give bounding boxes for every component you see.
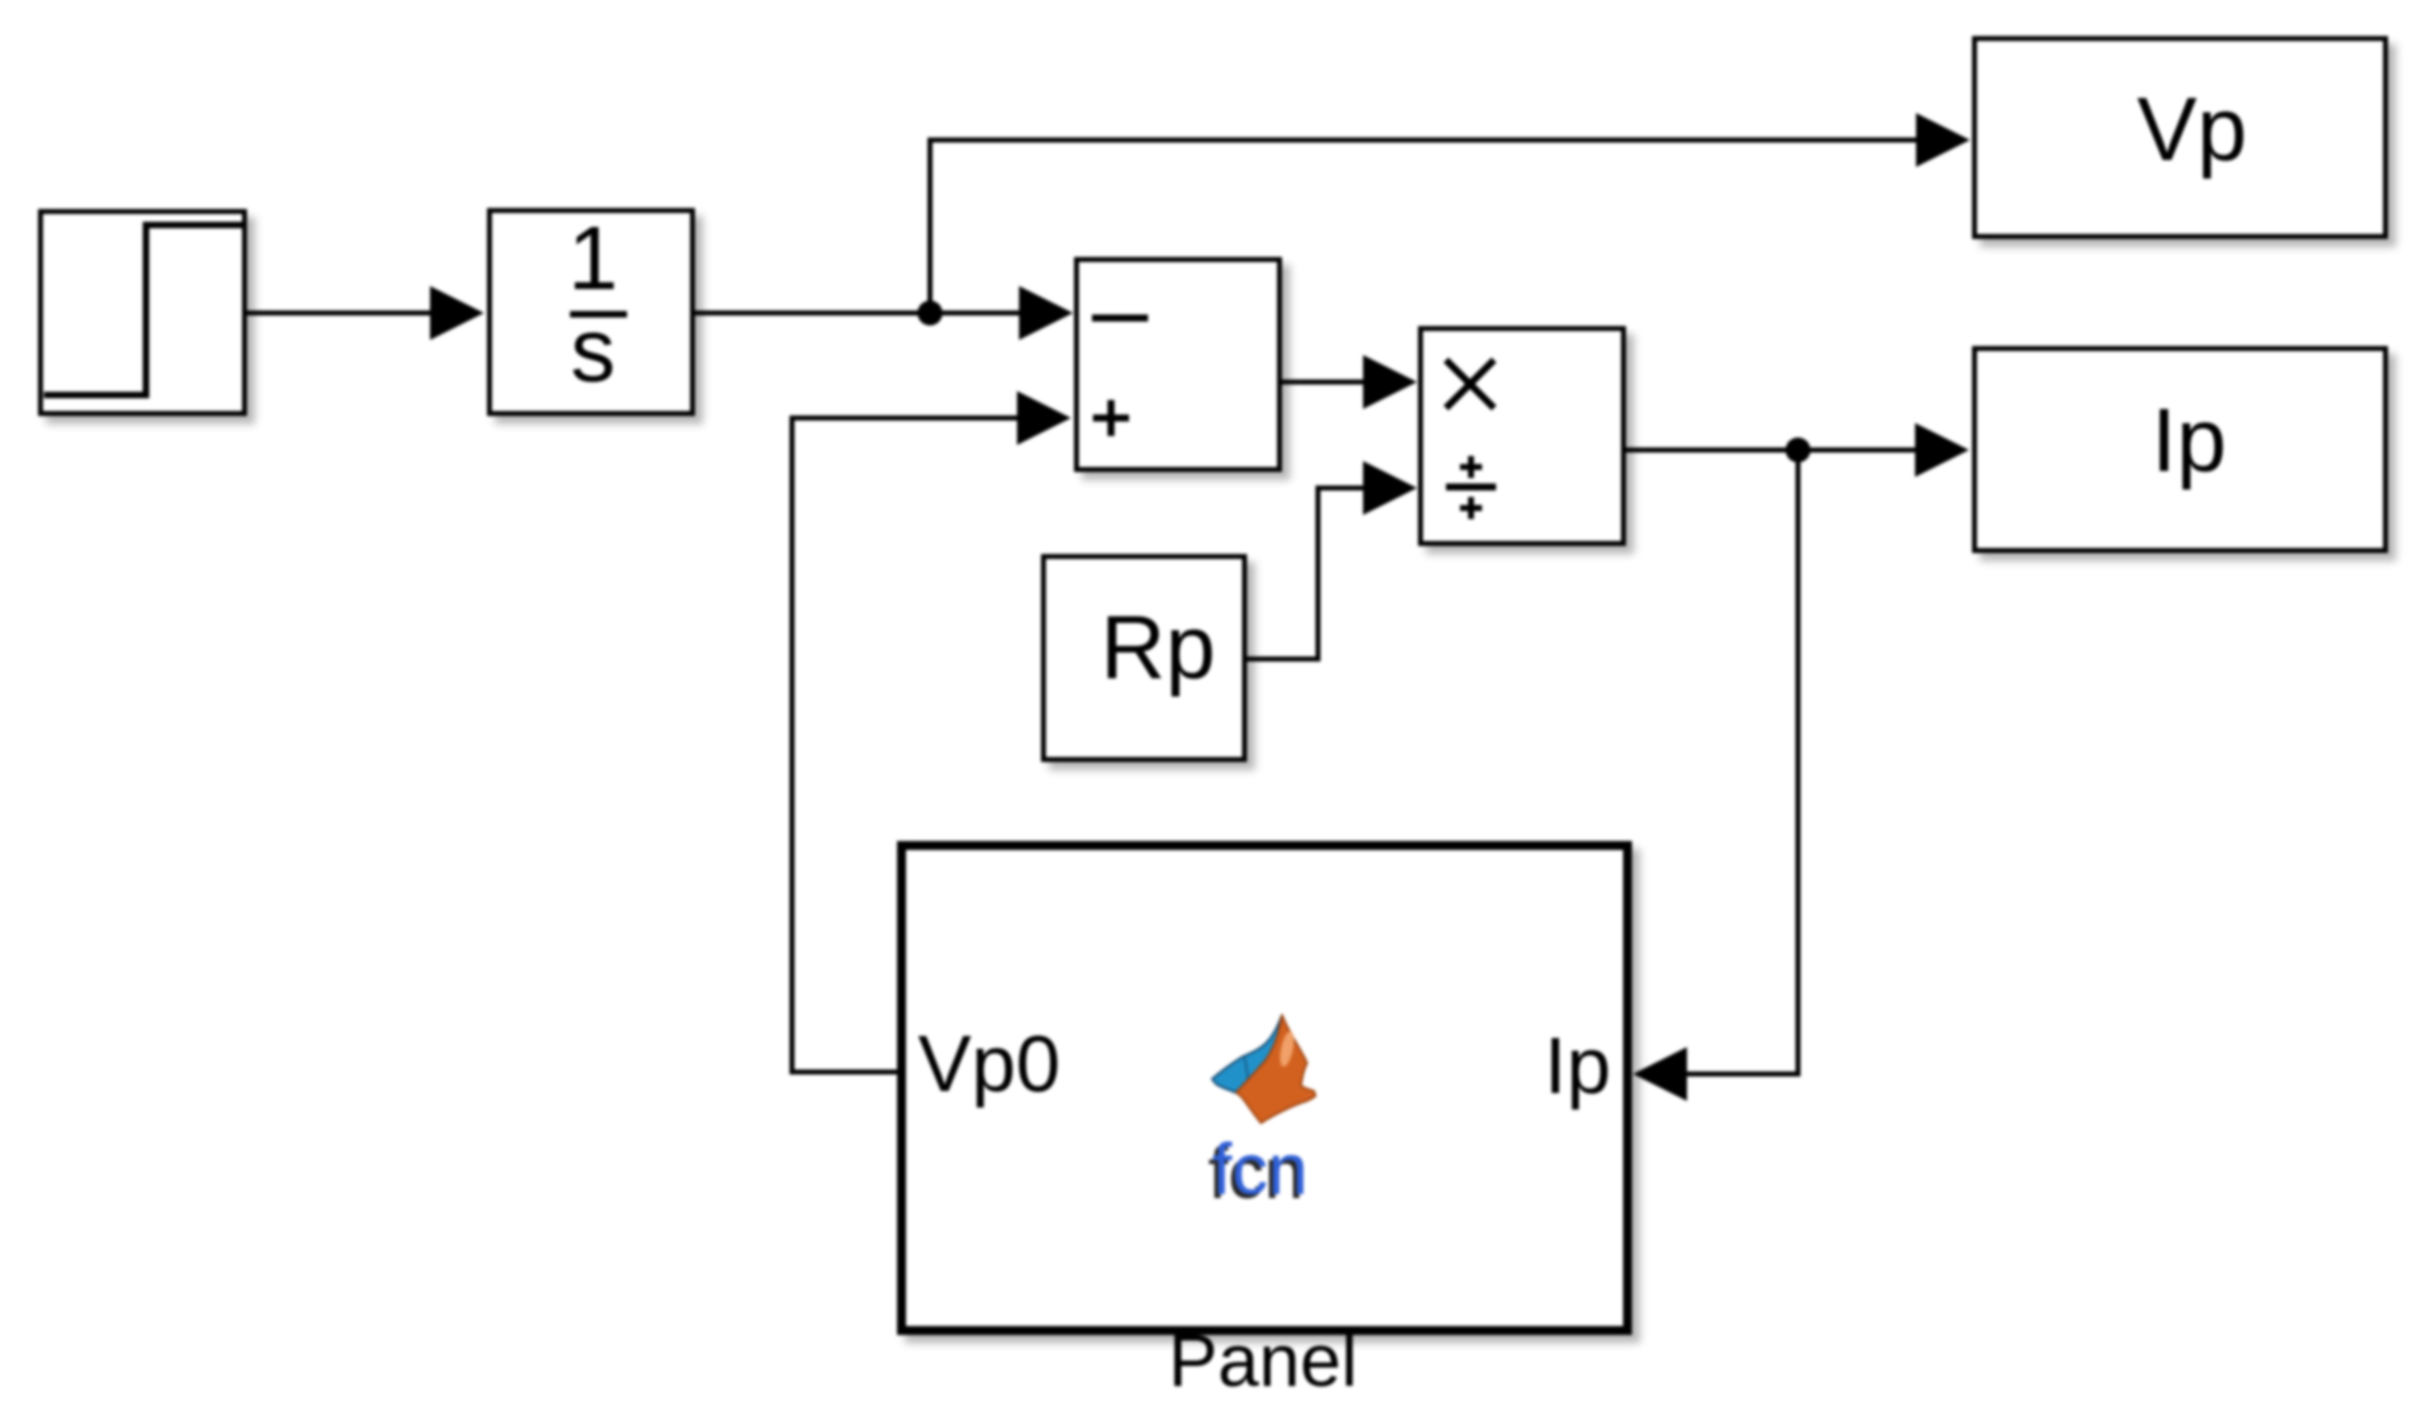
Panel fcn label — [1212, 1130, 1308, 1210]
wire junction A up and right to Vp outport — [930, 140, 1918, 313]
Panel port label Vp0 — [918, 1019, 1060, 1108]
arrowhead into Integrator input port — [430, 286, 484, 340]
Product divide icon upper plus — [1460, 456, 1482, 478]
svg-text:Ip: Ip — [2151, 391, 2226, 491]
MATLAB membrane logo blue ridge facet — [1212, 1015, 1282, 1093]
arrowhead into Panel Ip input port (pointing left) — [1633, 1047, 1687, 1101]
svg-text:Ip: Ip — [1544, 1021, 1611, 1110]
Product divide icon bar — [1446, 484, 1496, 491]
svg-text:fcn: fcn — [1212, 1130, 1308, 1210]
Sum plus sign — [1093, 400, 1129, 436]
svg-text:1: 1 — [568, 209, 618, 309]
svg-text:Vp: Vp — [2137, 80, 2247, 180]
Product divide icon lower plus — [1460, 497, 1482, 519]
Panel block name caption — [1168, 1319, 1357, 1402]
arrowhead into Sum minus input port — [1019, 286, 1073, 340]
block Ip outport body — [1975, 349, 2386, 551]
block Panel (MATLAB Function) body — [902, 846, 1628, 1331]
wire Integrator output to Sum minus input — [695, 311, 1022, 316]
block Step (step source) body — [41, 212, 245, 414]
arrowhead into Product divide input port — [1363, 461, 1417, 515]
wire Step output to Integrator input — [247, 311, 434, 316]
MATLAB membrane logo dark navy base facet — [1212, 1075, 1243, 1094]
block Product (multiply/divide) body — [1421, 329, 1624, 544]
wire Product output to Ip outport — [1626, 448, 1916, 453]
Ip outport label — [2151, 391, 2226, 491]
wire junction B down and left to Panel Ip input — [1682, 450, 1798, 1074]
Sum minus sign — [1092, 315, 1148, 322]
Integrator label 1/s numerator — [568, 209, 618, 309]
junction node A on Vp feed line — [918, 301, 943, 326]
arrowhead into Vp outport — [1916, 113, 1970, 167]
wire Panel Vp0 output up to Sum plus input — [792, 418, 1022, 1072]
arrowhead into Ip outport — [1915, 423, 1969, 477]
block Integrator body — [490, 211, 693, 414]
Product multiply x icon — [1446, 360, 1494, 408]
wire Sum output to Product multiply input — [1282, 380, 1366, 385]
Vp outport label — [2137, 80, 2247, 180]
svg-text:Vp0: Vp0 — [918, 1019, 1060, 1108]
MATLAB membrane logo blue facet divider line — [1244, 1056, 1248, 1079]
block Vp outport body — [1975, 39, 2386, 237]
block Sum (subtract) body — [1077, 260, 1280, 470]
svg-text:Panel: Panel — [1168, 1319, 1357, 1402]
arrowhead into Product multiply input port — [1363, 355, 1417, 409]
svg-text:Rp: Rp — [1100, 598, 1215, 698]
Panel port label Ip — [1544, 1021, 1611, 1110]
MATLAB membrane logo orange body — [1236, 1015, 1316, 1123]
junction node B on Ip feedback line — [1786, 438, 1811, 463]
wire Rp output to Product divide input — [1247, 488, 1366, 659]
MATLAB membrane logo highlight — [1277, 1030, 1296, 1068]
Step block step-waveform icon — [44, 225, 243, 395]
Integrator fraction bar — [570, 311, 627, 318]
Rp value label — [1100, 598, 1215, 698]
block Rp constant body — [1044, 557, 1245, 760]
arrowhead into Sum plus input port — [1017, 391, 1071, 445]
Panel fcn label shadow — [1208, 1134, 1304, 1214]
svg-text:s: s — [571, 301, 616, 401]
Integrator label 1/s denominator — [571, 301, 616, 401]
